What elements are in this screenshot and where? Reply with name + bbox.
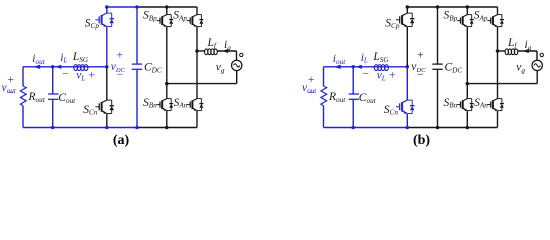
- wire tap to Lf: [197, 50, 205, 52]
- node top rail chopper: [105, 5, 109, 9]
- wire left branch vertical: [22, 67, 24, 86]
- inductor Lf: [505, 49, 508, 55]
- transistor SBp: [466, 7, 468, 14]
- resistor Rout: [321, 86, 327, 106]
- node top rail bridge: [466, 5, 470, 9]
- svg-text:−: −: [117, 69, 124, 81]
- transistor SAn: [196, 51, 198, 98]
- node Cout top: [51, 65, 55, 69]
- node bottom rail chopper: [406, 126, 410, 130]
- transistor SBp: [166, 7, 168, 14]
- current arrow iout: [334, 65, 341, 69]
- svg-text:+: +: [417, 49, 424, 61]
- svg-text:+: +: [389, 69, 396, 81]
- svg-text:(a): (a): [113, 133, 130, 148]
- svg-text:+: +: [7, 74, 14, 86]
- node top rail Cdc: [436, 5, 440, 9]
- resistor Rout: [20, 86, 26, 106]
- svg-text:+: +: [89, 69, 96, 81]
- inductor LSG: [374, 65, 378, 71]
- wire bottom rail blue: [23, 127, 137, 129]
- node Cout bottom: [51, 126, 55, 130]
- svg-text:(b): (b): [413, 133, 430, 148]
- svg-text:−: −: [363, 69, 370, 81]
- transistor SBn: [466, 84, 468, 99]
- terminal circle: [540, 53, 543, 56]
- capacitor CDC: [437, 7, 439, 64]
- transistor SCn: [406, 67, 408, 100]
- node bridge B midpoint: [466, 82, 470, 86]
- wire bottom rail blue: [324, 127, 408, 129]
- node top rail Cdc: [135, 5, 139, 9]
- transistor SAn: [497, 51, 499, 98]
- node Cout top: [351, 65, 355, 69]
- current arrow iL: [55, 65, 61, 69]
- capacitor Cout: [352, 67, 354, 94]
- svg-text:−: −: [7, 88, 14, 100]
- svg-text:−: −: [417, 69, 424, 81]
- transistor SBn: [166, 84, 168, 99]
- ac source vg: [532, 60, 542, 70]
- wire top rail highlighted segment: [407, 6, 437, 8]
- transistor SAp: [497, 7, 499, 14]
- capacitor CDC: [136, 7, 138, 64]
- terminal circle: [240, 53, 243, 56]
- inductor LSG: [74, 65, 78, 71]
- current arrow ig: [222, 49, 228, 53]
- current arrow iL: [356, 65, 362, 69]
- inductor Lf: [205, 49, 208, 55]
- wire source bottom return: [236, 71, 238, 84]
- wire source bottom return: [536, 71, 538, 84]
- node bottom rail bridge: [466, 126, 470, 130]
- node bridge B midpoint: [165, 82, 169, 86]
- wire top rail to bridge: [438, 6, 498, 8]
- node bottom rail bridge: [165, 126, 169, 130]
- node bridge A tap: [195, 49, 199, 53]
- node top rail bridge: [165, 5, 169, 9]
- transistor SAp: [196, 7, 198, 14]
- node bottom rail Cdc: [436, 126, 440, 130]
- svg-text:+: +: [308, 74, 315, 86]
- wire tap to Lf: [498, 50, 506, 52]
- svg-text:+: +: [117, 49, 124, 61]
- transistor SCp: [406, 7, 408, 13]
- node bridge A tap: [496, 49, 500, 53]
- current arrow ig: [523, 49, 529, 53]
- node top rail chopper: [406, 5, 410, 9]
- wire bottom rail black: [407, 127, 497, 129]
- wire top rail to bridge: [137, 6, 197, 8]
- wire Lf to source corner: [518, 50, 538, 52]
- wire top of output loop: [23, 66, 107, 68]
- wire source top lead: [536, 51, 538, 60]
- transistor SCn: [106, 67, 108, 100]
- node Cout bottom: [351, 126, 355, 130]
- wire bottom rail black: [137, 127, 197, 129]
- svg-text:−: −: [62, 69, 69, 81]
- svg-text:−: −: [308, 88, 315, 100]
- transistor SCp: [106, 7, 108, 13]
- circuit (a): [2, 5, 244, 148]
- node LSG junction: [105, 65, 109, 69]
- ac source vg: [232, 60, 242, 70]
- node LSG junction: [406, 65, 410, 69]
- wire top of output loop: [324, 66, 408, 68]
- node bottom rail chopper: [105, 126, 109, 130]
- wire top rail highlighted segment: [107, 6, 137, 8]
- wire source top lead: [236, 51, 238, 60]
- current arrow iout: [33, 65, 40, 69]
- capacitor Cout: [52, 67, 54, 94]
- wire left branch vertical: [323, 67, 325, 86]
- circuit (b): [302, 5, 544, 148]
- node bottom rail Cdc: [135, 126, 139, 130]
- wire Lf to source corner: [217, 50, 237, 52]
